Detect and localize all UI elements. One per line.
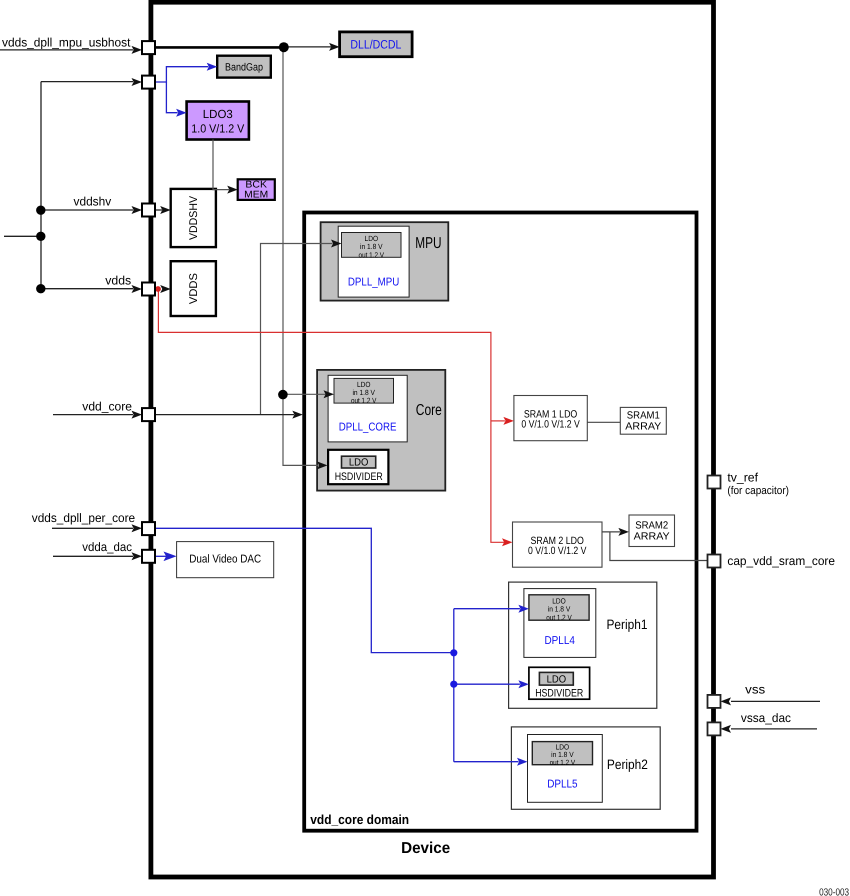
svg-text:0 V/1.0 V/1.2 V: 0 V/1.0 V/1.2 V	[521, 419, 580, 431]
svg-text:tv_ref: tv_ref	[727, 471, 758, 485]
svg-text:out 1.2 V: out 1.2 V	[351, 396, 377, 405]
svg-text:vdds_dpll_mpu_usbhost: vdds_dpll_mpu_usbhost	[2, 36, 131, 50]
svg-text:1.0 V/1.2 V: 1.0 V/1.2 V	[191, 121, 244, 135]
svg-text:out 1.2 V: out 1.2 V	[359, 250, 385, 259]
svg-text:LDO3: LDO3	[203, 107, 233, 121]
svg-text:LDO: LDO	[547, 675, 567, 686]
svg-text:DPLL4: DPLL4	[545, 635, 575, 647]
svg-text:LDO: LDO	[349, 458, 369, 469]
svg-text:vdd_core: vdd_core	[82, 399, 132, 413]
svg-text:MEM: MEM	[244, 189, 268, 200]
svg-text:out 1.2 V: out 1.2 V	[546, 613, 572, 622]
svg-text:vdds: vdds	[105, 273, 131, 287]
svg-text:MPU: MPU	[415, 235, 441, 252]
svg-text:Core: Core	[416, 402, 442, 419]
svg-text:BandGap: BandGap	[225, 61, 263, 73]
svg-text:VDDS: VDDS	[188, 273, 200, 304]
svg-text:HSDIVIDER: HSDIVIDER	[535, 688, 583, 700]
svg-text:0 V/1.0 V/1.2 V: 0 V/1.0 V/1.2 V	[528, 545, 587, 557]
svg-text:vdds_dpll_per_core: vdds_dpll_per_core	[32, 511, 135, 525]
svg-text:HSDIVIDER: HSDIVIDER	[335, 471, 383, 483]
svg-text:out 1.2 V: out 1.2 V	[550, 758, 576, 767]
svg-text:030-003: 030-003	[819, 887, 849, 896]
svg-text:Dual Video DAC: Dual Video DAC	[189, 553, 261, 565]
svg-text:vdda_dac: vdda_dac	[82, 540, 132, 554]
svg-text:DLL/DCDL: DLL/DCDL	[350, 38, 401, 52]
svg-text:ARRAY: ARRAY	[634, 531, 670, 542]
svg-text:cap_vdd_sram_core: cap_vdd_sram_core	[727, 554, 835, 568]
svg-text:VDDSHV: VDDSHV	[188, 195, 200, 240]
svg-text:SRAM1: SRAM1	[627, 411, 660, 422]
svg-text:DPLL5: DPLL5	[547, 779, 577, 791]
svg-text:vddshv: vddshv	[74, 194, 113, 208]
svg-text:vss: vss	[745, 682, 765, 696]
svg-text:(for capacitor): (for capacitor)	[727, 485, 789, 497]
svg-text:Periph1: Periph1	[607, 617, 648, 632]
svg-text:DPLL_MPU: DPLL_MPU	[348, 276, 399, 288]
svg-text:DPLL_CORE: DPLL_CORE	[339, 421, 397, 433]
svg-text:ARRAY: ARRAY	[625, 422, 661, 433]
svg-text:Device: Device	[401, 840, 450, 857]
svg-text:Periph2: Periph2	[607, 757, 648, 772]
svg-text:SRAM2: SRAM2	[635, 520, 668, 531]
svg-text:vssa_dac: vssa_dac	[741, 711, 791, 725]
svg-text:vdd_core domain: vdd_core domain	[310, 812, 409, 827]
